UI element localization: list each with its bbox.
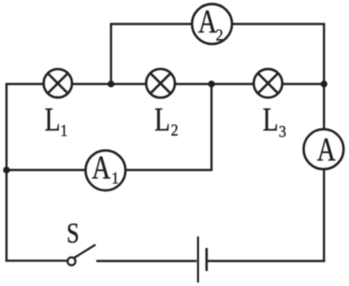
wire A2 branch riser	[110, 24, 112, 84]
svg-text:L: L	[45, 100, 61, 138]
wire switch to battery	[96, 260, 196, 262]
svg-text:2: 2	[216, 27, 223, 45]
node junction A1-branch / left rail	[3, 167, 10, 174]
wire A1 branch horizontal	[7, 169, 212, 171]
battery long plate	[197, 237, 199, 283]
svg-text:1: 1	[111, 170, 118, 188]
wire right rail	[323, 23, 325, 262]
svg-text:S: S	[67, 217, 80, 249]
node junction A1-branch / main	[208, 81, 215, 88]
svg-text:A: A	[317, 130, 336, 168]
wire main horizontal row	[5, 83, 324, 85]
label L3	[263, 100, 287, 141]
lamp L3	[254, 69, 283, 98]
svg-text:A: A	[92, 148, 111, 186]
battery short plate	[205, 248, 207, 271]
ammeter A1	[86, 148, 126, 190]
svg-text:L: L	[263, 100, 279, 138]
svg-text:A: A	[198, 2, 217, 40]
svg-text:1: 1	[60, 123, 67, 141]
ammeter A	[304, 129, 344, 169]
wire bottom left segment	[5, 260, 66, 262]
lamp L2	[146, 69, 175, 98]
switch S pivot	[68, 257, 76, 265]
svg-text:2: 2	[171, 122, 178, 140]
wire left rail	[5, 83, 7, 262]
lamp L1	[44, 69, 72, 97]
switch S blade	[74, 245, 95, 258]
ammeter A2	[192, 2, 232, 45]
wire battery to right corner	[208, 260, 326, 262]
node junction A2-branch / main	[108, 81, 115, 88]
label L1	[45, 100, 68, 140]
node junction main / right rail	[321, 81, 328, 88]
wire A2 branch top	[110, 23, 325, 25]
svg-text:3: 3	[279, 123, 287, 141]
wire A1 branch riser	[210, 84, 212, 171]
svg-text:L: L	[154, 100, 170, 138]
label L2	[154, 100, 178, 140]
